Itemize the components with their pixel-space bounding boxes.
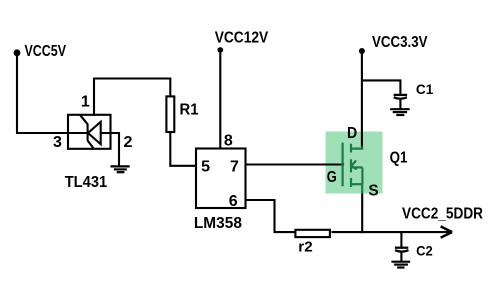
svg-text:r2: r2 — [298, 239, 312, 256]
wire LM358 pin6 to r2 — [246, 200, 295, 232]
TL431 triangle — [88, 122, 101, 144]
Q1 body stub with arrow — [351, 166, 362, 168]
svg-text:VCC2_5DDR: VCC2_5DDR — [402, 206, 483, 223]
wire Q1 source to output net — [361, 194, 363, 234]
node VCC3.3V dot — [359, 48, 365, 54]
regulator U1 TL431 body — [68, 115, 111, 149]
svg-text:7: 7 — [230, 158, 239, 175]
svg-text:C1: C1 — [416, 81, 434, 97]
wire C1 branch — [362, 80, 401, 93]
node VCC5V dot — [14, 49, 21, 56]
TL431 reference bend — [80, 115, 87, 124]
svg-text:1: 1 — [81, 94, 90, 111]
wire VCC3.3V to Q1 drain — [361, 52, 363, 147]
svg-text:LM358: LM358 — [194, 215, 242, 232]
resistor R1 — [166, 96, 174, 132]
transistor Q1 MOSFET symbol — [343, 143, 363, 194]
wire LM358 pin7 to Q1 gate — [246, 163, 345, 165]
ground under TL431 pin2 — [111, 166, 130, 172]
Q1 channel segments — [350, 144, 352, 153]
op-amp U2 LM358 body — [196, 149, 246, 209]
svg-text:VCC5V: VCC5V — [25, 43, 67, 60]
Q1 source inside highlight — [361, 184, 363, 193]
svg-text:3: 3 — [53, 134, 62, 151]
wire R1 to LM358 pin5 — [170, 132, 196, 166]
svg-text:S: S — [368, 183, 379, 200]
wire TL431 pin1 to R1 — [94, 79, 170, 117]
svg-text:8: 8 — [224, 132, 233, 149]
svg-text:Q1: Q1 — [390, 149, 408, 166]
net arrow VCC2_5DDR — [441, 226, 453, 237]
Q1 body to source — [361, 167, 363, 184]
wire TL431 pin2 to ground — [101, 133, 119, 166]
svg-text:C2: C2 — [416, 243, 433, 259]
Q1 gate bar — [342, 143, 344, 187]
Q1 drain stub — [351, 147, 362, 149]
svg-text:D: D — [347, 125, 357, 142]
svg-text:R1: R1 — [180, 102, 199, 119]
capacitor C1 — [394, 95, 408, 99]
svg-text:2: 2 — [124, 134, 133, 151]
svg-text:G: G — [327, 169, 337, 186]
svg-text:VCC3.3V: VCC3.3V — [372, 34, 428, 51]
capacitor C2 — [395, 248, 409, 252]
wire C1 to ground — [399, 99, 401, 109]
wire C2 to ground — [400, 252, 402, 262]
wire C2 branch — [400, 232, 402, 247]
svg-text:5: 5 — [201, 158, 210, 175]
TL431 cathode bar — [87, 124, 89, 141]
Q1 source stub — [351, 183, 362, 185]
TL431 anode bend — [88, 141, 94, 149]
wire VCC12V to LM358 pin8 — [219, 51, 221, 149]
ground under C2 — [391, 262, 410, 268]
transistor Q1 highlight — [326, 132, 383, 194]
svg-text:TL431: TL431 — [65, 174, 108, 191]
node VCC12V dot — [217, 47, 223, 53]
wire VCC5V to TL431 pin 3 — [17, 54, 88, 133]
ground under C1 — [390, 109, 410, 115]
svg-text:6: 6 — [229, 193, 238, 210]
resistor r2 — [295, 230, 330, 237]
svg-text:VCC12V: VCC12V — [215, 30, 269, 47]
wire r2 to VCC2_5DDR output — [332, 231, 451, 233]
